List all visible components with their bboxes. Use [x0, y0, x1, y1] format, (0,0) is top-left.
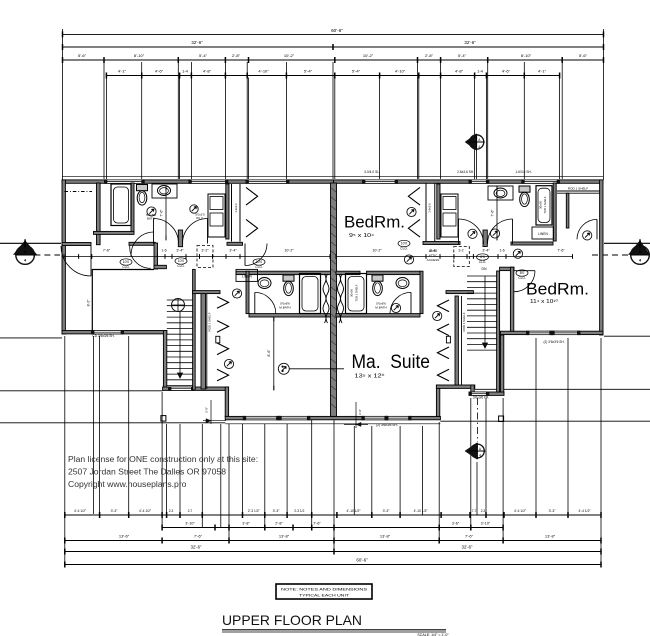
- svg-text:13’-8”: 13’-8”: [380, 533, 391, 538]
- svg-text:LINEN: LINEN: [242, 275, 252, 279]
- svg-text:5’-6”: 5’-6”: [78, 53, 87, 58]
- svg-text:7’-6”: 7’-6”: [194, 533, 203, 538]
- svg-text:2/6x3/6 FR.: 2/6x3/6 FR.: [473, 395, 490, 399]
- svg-text:5’-6”: 5’-6”: [579, 53, 588, 58]
- svg-text:3’-6”: 3’-6”: [452, 521, 460, 525]
- svg-text:3’-0”: 3’-0”: [205, 407, 209, 413]
- svg-text:3’-0”: 3’-0”: [358, 409, 362, 415]
- svg-text:Copyright www.houseplans.pro: Copyright www.houseplans.pro: [68, 479, 187, 489]
- svg-text:2’-8”: 2’-8”: [425, 53, 434, 58]
- svg-text:8’-10”: 8’-10”: [134, 53, 145, 58]
- svg-text:TUB 1 SHELF: TUB 1 SHELF: [543, 196, 547, 213]
- svg-text:1-6/3-6 SH.: 1-6/3-6 SH.: [515, 170, 531, 174]
- svg-text:CLG.: CLG.: [122, 265, 130, 269]
- svg-text:4’-6”: 4’-6”: [502, 68, 511, 73]
- svg-text:4’-4 1/2”: 4’-4 1/2”: [74, 509, 86, 513]
- svg-text:2-3 1/2: 2-3 1/2: [294, 509, 304, 513]
- svg-text:10’-2”: 10’-2”: [372, 249, 382, 253]
- svg-text:3’-3”: 3’-3”: [383, 509, 390, 513]
- svg-text:11⁴ x 10¹⁰: 11⁴ x 10¹⁰: [530, 299, 558, 305]
- svg-text:60’-6”: 60’-6”: [331, 28, 343, 33]
- svg-text:1-6x2-6: 1-6x2-6: [234, 203, 238, 213]
- svg-text:3’-3”: 3’-3”: [273, 509, 280, 513]
- svg-text:8’-6”: 8’-6”: [267, 349, 271, 357]
- svg-text:3’-4”: 3’-4”: [482, 249, 490, 253]
- svg-text:ACCESS: ACCESS: [427, 258, 440, 262]
- svg-text:UPPER FLOOR PLAN: UPPER FLOOR PLAN: [222, 612, 362, 628]
- svg-text:2’-3 1/2”: 2’-3 1/2”: [248, 509, 260, 513]
- svg-text:CLG.: CLG.: [177, 264, 185, 268]
- svg-text:3’-3”: 3’-3”: [549, 509, 556, 513]
- svg-text:10’-2”: 10’-2”: [284, 53, 295, 58]
- svg-text:5’-4”: 5’-4”: [352, 68, 361, 73]
- svg-text:4’-8”: 4’-8”: [203, 68, 212, 73]
- svg-text:2’-8”: 2’-8”: [275, 521, 283, 525]
- svg-text:30x60: 30x60: [539, 201, 543, 209]
- svg-text:8’0: 8’0: [480, 255, 485, 259]
- svg-text:TYPICAL EACH UNIT: TYPICAL EACH UNIT: [299, 593, 350, 598]
- svg-text:4’-1”: 4’-1”: [118, 68, 127, 73]
- svg-text:ROD 1 SHELF: ROD 1 SHELF: [208, 312, 212, 331]
- svg-text:B: B: [24, 249, 27, 254]
- svg-text:4’-8”: 4’-8”: [455, 68, 464, 73]
- svg-text:4: 4: [478, 145, 480, 149]
- svg-text:7’-6”: 7’-6”: [557, 249, 565, 253]
- svg-text:8’-2”: 8’-2”: [86, 300, 90, 307]
- svg-text:4’-10 1/2”: 4’-10 1/2”: [347, 509, 361, 513]
- svg-text:32’-6”: 32’-6”: [462, 545, 473, 550]
- svg-text:B: B: [639, 249, 642, 254]
- svg-text:8’0: 8’0: [520, 271, 525, 275]
- svg-text:2-3: 2-3: [169, 509, 174, 513]
- svg-text:9⁵ x 10⁴: 9⁵ x 10⁴: [349, 233, 374, 239]
- svg-text:3’-4”: 3’-4”: [229, 249, 237, 253]
- svg-text:4’-4 1/2”: 4’-4 1/2”: [514, 509, 526, 513]
- svg-text:ROD 1 SHELF: ROD 1 SHELF: [462, 312, 466, 331]
- svg-text:CD 3/6x3/6 SH.: CD 3/6x3/6 SH.: [92, 334, 114, 338]
- svg-text:2-6x3-6 SH.: 2-6x3-6 SH.: [457, 170, 474, 174]
- svg-text:30x60: 30x60: [350, 289, 354, 297]
- svg-text:(2) 3’6x3’6 SH.: (2) 3’6x3’6 SH.: [543, 340, 564, 344]
- svg-text:13⁵ x 12⁰: 13⁵ x 12⁰: [355, 374, 385, 380]
- svg-text:1-4: 1-4: [477, 68, 484, 73]
- svg-text:7’-6”: 7’-6”: [103, 249, 111, 253]
- svg-text:CLG.: CLG.: [518, 276, 526, 280]
- svg-text:Ma. Suite: Ma. Suite: [352, 352, 431, 373]
- svg-text:60’-6”: 60’-6”: [356, 557, 368, 562]
- svg-text:3’-4”: 3’-4”: [429, 249, 437, 253]
- svg-text:7’-6”: 7’-6”: [465, 533, 474, 538]
- svg-text:NOTE: NOTES AND DIMENSIONS: NOTE: NOTES AND DIMENSIONS: [281, 587, 367, 592]
- svg-text:3’-2”: 3’-2”: [201, 249, 209, 253]
- svg-text:4’-10”: 4’-10”: [258, 68, 269, 73]
- svg-text:5’-4”: 5’-4”: [199, 53, 208, 58]
- svg-text:BedRm.: BedRm.: [344, 214, 405, 232]
- svg-text:ROD 1 SHELF: ROD 1 SHELF: [568, 187, 588, 191]
- svg-text:CLG.: CLG.: [255, 265, 263, 269]
- svg-text:8’-10”: 8’-10”: [521, 53, 532, 58]
- svg-text:1-6: 1-6: [161, 249, 166, 253]
- svg-text:M.BATH: M.BATH: [375, 306, 386, 310]
- svg-text:1-6: 1-6: [499, 249, 504, 253]
- svg-text:DN: DN: [481, 267, 487, 271]
- svg-text:3’-3”: 3’-3”: [111, 509, 118, 513]
- svg-text:4’-1”: 4’-1”: [538, 68, 547, 73]
- svg-text:4’-4 1/2”: 4’-4 1/2”: [139, 509, 151, 513]
- svg-text:LINEN: LINEN: [538, 232, 548, 236]
- svg-text:10’0: 10’0: [178, 259, 185, 263]
- svg-text:Plan license for ONE construct: Plan license for ONE construction only a…: [68, 454, 258, 464]
- svg-text:1-4: 1-4: [182, 68, 189, 73]
- svg-text:CLG.: CLG.: [479, 260, 487, 264]
- svg-text:13’-8”: 13’-8”: [279, 533, 290, 538]
- svg-text:3’-8”: 3’-8”: [242, 521, 250, 525]
- svg-text:10’-2”: 10’-2”: [363, 53, 374, 58]
- svg-text:10’0: 10’0: [123, 260, 130, 264]
- svg-text:4: 4: [479, 454, 481, 458]
- svg-text:5’-4”: 5’-4”: [304, 68, 313, 73]
- svg-text:32’-6”: 32’-6”: [464, 40, 476, 45]
- svg-text:2-3: 2-3: [481, 509, 486, 513]
- svg-text:3-2: 3-2: [458, 249, 463, 253]
- svg-text:4’-10 1/2”: 4’-10 1/2”: [414, 509, 428, 513]
- svg-text:2-7: 2-7: [188, 509, 193, 513]
- svg-text:4’-6”: 4’-6”: [155, 68, 164, 73]
- svg-text:7’-6”: 7’-6”: [313, 521, 321, 525]
- svg-text:1-6x2-6: 1-6x2-6: [427, 203, 431, 213]
- svg-text:(2) 3/6x3/6 SH-: (2) 3/6x3/6 SH-: [376, 423, 398, 427]
- svg-text:32’-6”: 32’-6”: [191, 545, 202, 550]
- svg-text:3-0/4-0 SL.: 3-0/4-0 SL.: [364, 170, 380, 174]
- svg-text:13’-6”: 13’-6”: [119, 533, 130, 538]
- svg-text:BedRm.: BedRm.: [526, 281, 589, 299]
- svg-text:4’-4 1/2”: 4’-4 1/2”: [578, 509, 590, 513]
- svg-text:7-7: 7-7: [472, 509, 477, 513]
- svg-text:10’0: 10’0: [256, 260, 263, 264]
- svg-text:10’0: 10’0: [401, 242, 408, 246]
- svg-text:13’-8”: 13’-8”: [545, 533, 556, 538]
- svg-text:2’-8”: 2’-8”: [232, 53, 241, 58]
- svg-text:32’-6”: 32’-6”: [191, 40, 203, 45]
- svg-text:7’-6”: 7’-6”: [160, 209, 164, 217]
- svg-text:3’-10”: 3’-10”: [185, 521, 195, 525]
- svg-text:CLG.: CLG.: [400, 246, 408, 250]
- svg-text:4’-10”: 4’-10”: [395, 68, 406, 73]
- svg-text:5’-4”: 5’-4”: [458, 53, 467, 58]
- svg-text:3’-10”: 3’-10”: [481, 521, 491, 525]
- svg-text:10’-2”: 10’-2”: [284, 249, 294, 253]
- svg-text:TUB 1 SHELF: TUB 1 SHELF: [355, 284, 359, 301]
- svg-text:2507 Jordan Street The Dalles: 2507 Jordan Street The Dalles OR 97058: [68, 467, 226, 477]
- svg-text:M.BATH: M.BATH: [279, 306, 290, 310]
- svg-text:7’-6”: 7’-6”: [491, 209, 495, 217]
- svg-text:3’-4”: 3’-4”: [176, 249, 184, 253]
